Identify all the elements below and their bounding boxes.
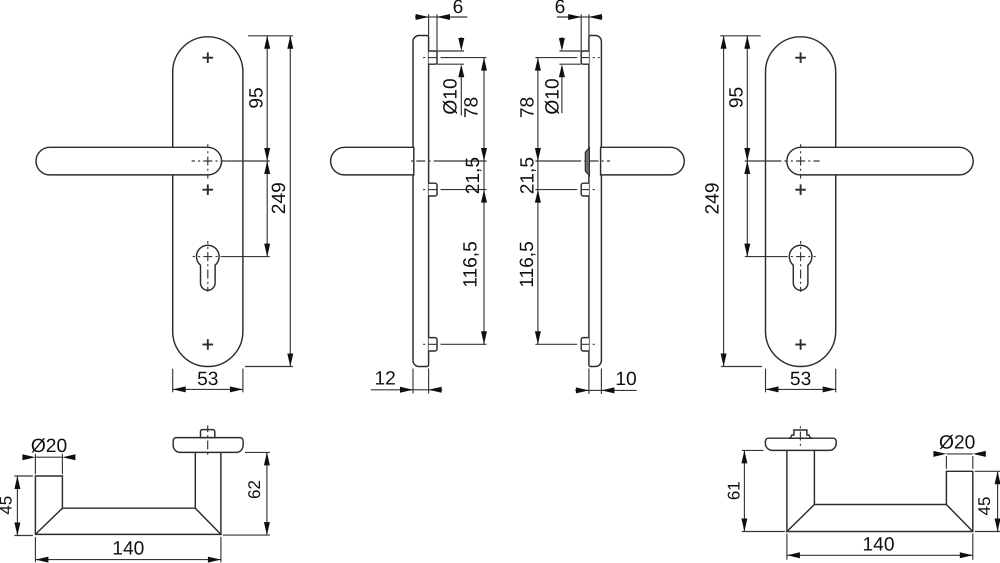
svg-text:Ø10: Ø10 <box>542 78 563 114</box>
svg-text:Ø10: Ø10 <box>441 78 462 114</box>
svg-text:116,5: 116,5 <box>460 241 481 288</box>
svg-text:10: 10 <box>615 369 636 390</box>
svg-text:62: 62 <box>245 480 264 499</box>
svg-text:12: 12 <box>375 369 396 390</box>
svg-text:21,5: 21,5 <box>463 157 484 194</box>
svg-text:249: 249 <box>269 182 290 214</box>
svg-text:61: 61 <box>725 481 744 500</box>
svg-text:53: 53 <box>197 369 218 390</box>
svg-text:6: 6 <box>555 0 566 18</box>
svg-text:78: 78 <box>518 97 539 118</box>
svg-text:249: 249 <box>702 182 723 214</box>
svg-text:95: 95 <box>246 87 267 108</box>
svg-text:140: 140 <box>862 535 894 556</box>
svg-text:21,5: 21,5 <box>517 157 538 194</box>
svg-text:Ø20: Ø20 <box>939 433 975 454</box>
svg-text:6: 6 <box>453 0 464 18</box>
svg-text:116,5: 116,5 <box>517 241 538 288</box>
svg-text:140: 140 <box>112 538 144 559</box>
svg-text:45: 45 <box>0 496 16 515</box>
svg-text:78: 78 <box>461 97 482 118</box>
svg-text:Ø20: Ø20 <box>31 436 67 457</box>
svg-text:53: 53 <box>790 369 811 390</box>
svg-text:45: 45 <box>975 497 994 516</box>
svg-text:95: 95 <box>726 87 747 108</box>
